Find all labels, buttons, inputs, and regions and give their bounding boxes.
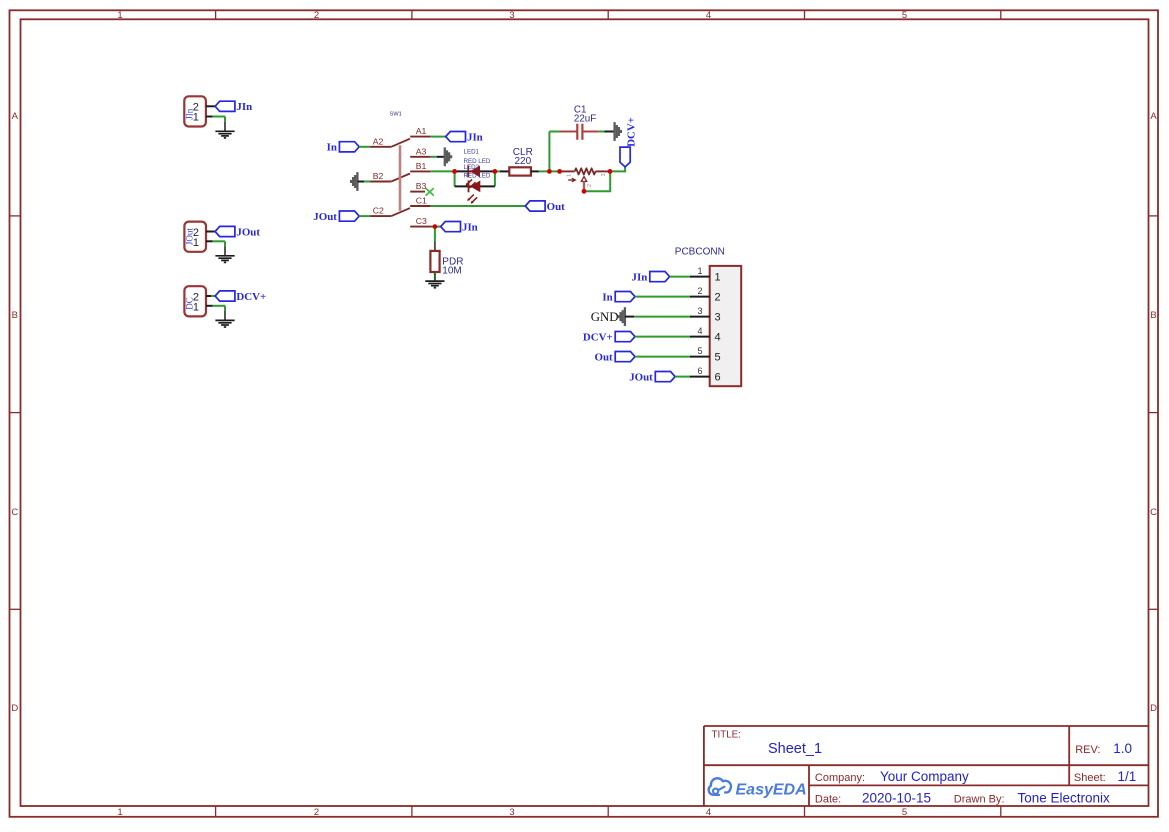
svg-text:2: 2 xyxy=(314,807,319,818)
svg-text:EasyEDA: EasyEDA xyxy=(736,781,807,798)
svg-text:Date:: Date: xyxy=(815,794,841,806)
switch SW1 mechanical link xyxy=(399,145,402,211)
svg-text:B3: B3 xyxy=(416,181,427,191)
svg-text:3: 3 xyxy=(509,10,514,21)
svg-text:C: C xyxy=(1150,507,1157,518)
wire SW1 B1 to LED node xyxy=(431,170,455,172)
label LED2 value RED LED xyxy=(464,173,491,180)
wire In flag to SW1 A2 xyxy=(359,146,370,148)
svg-text:1: 1 xyxy=(715,272,721,284)
border column tick marks xyxy=(216,10,1001,817)
wire SW1 C1 to Out flag xyxy=(431,205,526,207)
svg-text:Sheet_1: Sheet_1 xyxy=(768,741,822,757)
svg-text:DCV+: DCV+ xyxy=(583,332,613,344)
wire SW1 A3 to ground xyxy=(431,156,445,158)
svg-text:SW1: SW1 xyxy=(390,111,402,117)
connector J2 pin 1 xyxy=(206,240,213,242)
connector PCBCONN pin 3 xyxy=(690,306,721,324)
svg-text:LED2: LED2 xyxy=(464,164,480,171)
net flag JOut at SW1 C2 xyxy=(313,211,359,223)
potentiometer pin number 2 xyxy=(587,184,593,187)
ground symbol at SW1 B2 xyxy=(351,172,357,191)
svg-text:LED1: LED1 xyxy=(464,149,480,156)
border row letters xyxy=(11,111,1157,714)
svg-text:22uF: 22uF xyxy=(574,114,596,125)
svg-text:A2: A2 xyxy=(373,136,384,146)
capacitor C1 22uF xyxy=(560,104,599,139)
wire pot pin3 to DCV+ flag xyxy=(610,167,625,172)
label LED2 xyxy=(464,164,480,171)
wire node to pot pin1 xyxy=(549,170,559,172)
switch SW1 contact C1 xyxy=(410,196,430,206)
wire CLR to node xyxy=(531,170,550,172)
title block grid lines xyxy=(704,726,1149,806)
LED LED1 xyxy=(468,166,480,178)
svg-text:A: A xyxy=(12,111,19,122)
title block sheet name Sheet_1 xyxy=(768,741,822,757)
net flag Out at PCBCONN pin 5 xyxy=(595,352,635,364)
title block TITLE label xyxy=(712,730,741,741)
title block Company label xyxy=(815,772,865,784)
potentiometer pin number 1 xyxy=(567,174,573,177)
connector J1 pin 2 xyxy=(206,105,215,107)
svg-text:Company:: Company: xyxy=(815,772,865,784)
svg-text:3: 3 xyxy=(601,173,607,176)
svg-text:B2: B2 xyxy=(373,171,384,181)
wire ground to PCBCONN pin 3 xyxy=(625,316,690,318)
node junction at C3 xyxy=(433,224,438,229)
net flag In at PCBCONN pin 2 xyxy=(602,292,635,304)
svg-text:5: 5 xyxy=(715,352,721,364)
svg-text:3: 3 xyxy=(509,807,514,818)
svg-text:4: 4 xyxy=(706,807,711,818)
ground symbol right of C1 xyxy=(615,122,621,141)
connector J1 body xyxy=(184,96,206,126)
title block sheet value 1/1 xyxy=(1118,769,1137,784)
connector PCBCONN label xyxy=(675,246,725,257)
switch SW1 pole C2 xyxy=(370,206,391,216)
wire LED branch frame xyxy=(455,171,495,186)
title block date value xyxy=(862,791,931,806)
wire JIn flag to PCBCONN pin 1 xyxy=(670,276,690,278)
ground symbol at PCBCONN pin 3 xyxy=(619,307,625,326)
wire JOut flag to PCBCONN pin 6 xyxy=(675,376,690,378)
connector J2 pin 2 xyxy=(206,231,215,233)
node junction at cap branch xyxy=(547,169,552,174)
title block company value xyxy=(880,769,969,784)
svg-text:2020-10-15: 2020-10-15 xyxy=(862,791,931,806)
svg-text:JIn: JIn xyxy=(467,132,483,144)
node junction LED left xyxy=(452,169,457,174)
label LED1 xyxy=(464,149,480,156)
svg-text:B1: B1 xyxy=(416,161,427,171)
net flag In at SW1 A2 xyxy=(327,142,360,154)
svg-text:JOut: JOut xyxy=(629,372,653,384)
title block rev value 1.0 xyxy=(1113,741,1132,756)
switch SW1 contact B1 xyxy=(410,161,430,171)
svg-text:1: 1 xyxy=(117,807,122,818)
svg-text:4: 4 xyxy=(706,10,711,21)
svg-text:5: 5 xyxy=(902,10,907,21)
no-connect flag at SW1 B3 xyxy=(426,188,434,196)
LED LED2 emission arrows xyxy=(467,195,477,204)
title block drawn by value xyxy=(1018,791,1111,806)
svg-text:RED LED: RED LED xyxy=(464,173,491,180)
svg-text:D: D xyxy=(11,703,18,714)
potentiometer pin number 3 xyxy=(601,173,607,176)
svg-text:In: In xyxy=(327,142,337,154)
svg-text:C2: C2 xyxy=(373,206,384,216)
net flag DCV+ above pot xyxy=(620,117,638,167)
wire In flag to PCBCONN pin 2 xyxy=(635,296,690,298)
border row tick marks xyxy=(10,216,1159,609)
svg-text:220: 220 xyxy=(514,156,531,167)
svg-text:B: B xyxy=(1150,310,1156,321)
svg-text:C: C xyxy=(11,507,18,518)
wire SW1 C3 to junction xyxy=(432,226,441,228)
svg-text:JOut: JOut xyxy=(313,211,337,223)
connector PCBCONN pin 4 xyxy=(690,326,721,344)
ground symbol at SW1 A3 xyxy=(445,147,451,166)
EasyEDA logo xyxy=(709,778,807,798)
connector J2 body xyxy=(184,222,206,252)
svg-text:1: 1 xyxy=(697,266,702,276)
svg-text:2: 2 xyxy=(314,10,319,21)
switch SW1 lever A xyxy=(391,139,410,147)
svg-text:A1: A1 xyxy=(416,126,427,136)
svg-text:PCBCONN: PCBCONN xyxy=(675,246,725,257)
svg-text:2: 2 xyxy=(715,292,721,304)
resistor PDR 10M xyxy=(430,251,463,277)
svg-text:JIn: JIn xyxy=(632,272,648,284)
wire node up to capacitor C1 xyxy=(549,132,559,172)
svg-text:A3: A3 xyxy=(416,146,427,156)
net flag JIn at PCBCONN pin 1 xyxy=(632,272,670,284)
svg-text:TITLE:: TITLE: xyxy=(712,730,741,741)
wire ground to SW1 B2 xyxy=(357,181,370,183)
svg-text:Out: Out xyxy=(547,201,566,213)
svg-text:1.0: 1.0 xyxy=(1113,741,1132,756)
svg-text:GND: GND xyxy=(591,310,619,324)
switch SW1 pole B2 xyxy=(370,171,391,181)
wire LED node to CLR xyxy=(495,170,509,172)
wire PDR to ground xyxy=(434,272,436,281)
power label GND at PCBCONN pin 3 xyxy=(591,310,619,324)
svg-text:1: 1 xyxy=(117,10,122,21)
resistor CLR 220 xyxy=(509,147,533,176)
connector PCBCONN pin 1 xyxy=(690,266,721,284)
ground symbol below PDR xyxy=(425,281,444,288)
potentiometer wiper arrow xyxy=(568,178,575,182)
svg-text:Tone Electronix: Tone Electronix xyxy=(1018,791,1111,806)
svg-text:5: 5 xyxy=(697,346,702,356)
connector J3 pin 1 xyxy=(206,305,213,307)
wire J3 pin1 to ground xyxy=(213,306,225,321)
wire J2 pin1 to ground xyxy=(213,241,225,256)
net flag Out at SW1 C1 xyxy=(525,201,565,213)
svg-text:C1: C1 xyxy=(416,196,427,206)
switch SW1 lever B xyxy=(391,174,410,182)
connector J1 pin 1 xyxy=(206,116,213,118)
svg-text:JIn: JIn xyxy=(236,101,252,113)
net flag JOut at PCBCONN pin 6 xyxy=(629,372,675,384)
switch SW1 contact A3 xyxy=(410,146,430,156)
switch SW1 lever C xyxy=(391,208,410,216)
node junction at pot pin3 xyxy=(608,169,613,174)
node junction at pot pin1 xyxy=(557,169,562,174)
wire capacitor C1 to ground xyxy=(599,131,615,133)
svg-text:DCV+: DCV+ xyxy=(626,117,638,147)
svg-text:DCV+: DCV+ xyxy=(236,291,266,303)
switch SW1 contact A1 xyxy=(410,126,430,136)
svg-text:JIn: JIn xyxy=(185,108,195,119)
connector J3 pin 2 xyxy=(206,295,215,297)
wire DCV+ flag to PCBCONN pin 4 xyxy=(635,336,690,338)
net flag DCV+ at PCBCONN pin 4 xyxy=(583,332,635,344)
svg-text:1/1: 1/1 xyxy=(1118,769,1137,784)
net flag JIn at SW1 C3 xyxy=(441,222,478,234)
svg-text:JOut: JOut xyxy=(185,228,195,246)
connector PCBCONN body xyxy=(710,266,742,386)
title block Date label xyxy=(815,794,841,806)
title block REV label xyxy=(1075,744,1100,756)
svg-text:DC: DC xyxy=(185,297,195,310)
svg-text:Out: Out xyxy=(595,352,614,364)
svg-text:C3: C3 xyxy=(416,216,427,226)
svg-text:2: 2 xyxy=(697,286,702,296)
ground symbol below J3 xyxy=(215,320,234,327)
ground symbol below J1 xyxy=(215,131,234,138)
svg-text:4: 4 xyxy=(697,326,702,336)
svg-text:REV:: REV: xyxy=(1075,744,1100,756)
switch SW1 pole A2 xyxy=(370,136,391,146)
svg-text:6: 6 xyxy=(715,372,721,384)
svg-text:Your Company: Your Company xyxy=(880,769,969,784)
node junction at wiper xyxy=(582,189,587,194)
potentiometer body xyxy=(560,168,610,174)
svg-text:Sheet:: Sheet: xyxy=(1074,772,1106,784)
svg-text:1: 1 xyxy=(567,174,573,177)
connector J3 body xyxy=(184,286,206,316)
potentiometer wiper pin 2 xyxy=(581,177,586,192)
net flag JOut at J2 xyxy=(215,226,260,238)
svg-text:3: 3 xyxy=(715,312,721,324)
ground symbol below J2 xyxy=(215,256,234,263)
label LED1 value RED LED xyxy=(464,158,491,165)
wire J1 pin1 to ground xyxy=(213,117,225,132)
net flag JIn at SW1 A1 xyxy=(446,132,483,144)
wire wiper to pot pin3 xyxy=(584,171,610,191)
border column numbers xyxy=(117,10,907,818)
switch SW1 reference label xyxy=(390,111,402,117)
svg-text:In: In xyxy=(602,292,612,304)
LED LED1 emission arrows xyxy=(466,179,476,188)
net flag JIn at J1 xyxy=(215,101,252,113)
svg-text:JOut: JOut xyxy=(236,226,260,238)
switch SW1 contact B3 xyxy=(410,181,426,191)
connector PCBCONN pin 6 xyxy=(690,366,721,384)
wire Out flag to PCBCONN pin 5 xyxy=(635,356,690,358)
net flag DCV+ at J3 xyxy=(215,291,266,303)
LED LED2 xyxy=(469,181,481,193)
wire JOut flag to SW1 C2 xyxy=(359,215,370,217)
svg-text:Drawn By:: Drawn By: xyxy=(954,794,1005,806)
svg-text:2: 2 xyxy=(587,184,593,187)
connector PCBCONN pin 5 xyxy=(690,346,721,364)
title block Sheet label xyxy=(1074,772,1106,784)
svg-text:4: 4 xyxy=(715,332,721,344)
wire C3 junction down to PDR xyxy=(434,227,436,251)
wire SW1 A1 to JIn flag xyxy=(431,136,446,138)
svg-text:3: 3 xyxy=(697,306,702,316)
svg-text:A: A xyxy=(1150,111,1157,122)
node junction LED right xyxy=(493,169,498,174)
svg-text:10M: 10M xyxy=(442,266,461,277)
svg-text:D: D xyxy=(1150,703,1157,714)
svg-text:6: 6 xyxy=(697,366,702,376)
svg-text:B: B xyxy=(12,310,18,321)
svg-text:JIn: JIn xyxy=(462,222,478,234)
connector PCBCONN pin 2 xyxy=(690,286,721,304)
svg-text:5: 5 xyxy=(902,807,907,818)
title block Drawn By label xyxy=(954,794,1005,806)
switch SW1 contact C3 xyxy=(410,216,432,226)
